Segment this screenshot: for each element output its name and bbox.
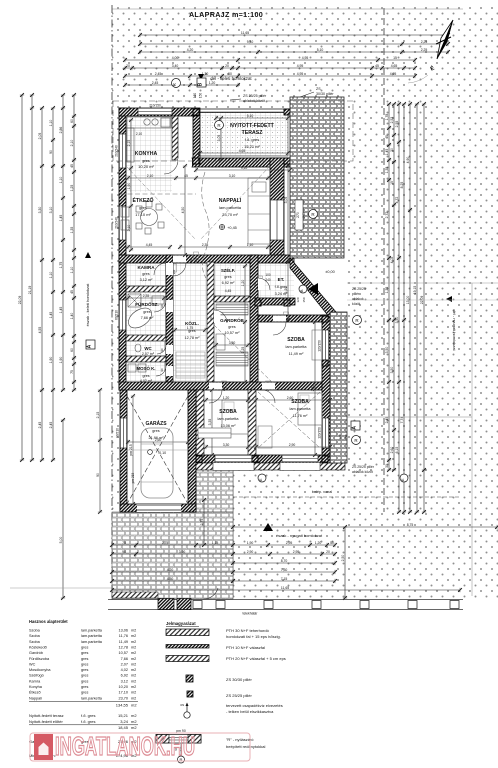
svg-text:90: 90 [49, 150, 53, 154]
ground stipple texture [112, 5, 498, 600]
section box A left [86, 340, 95, 349]
svg-text:2,50: 2,50 [341, 555, 345, 562]
svg-text:2,25: 2,25 [421, 48, 428, 52]
svg-text:4,00: 4,00 [172, 56, 179, 60]
terrace top edge lines [196, 108, 290, 110]
svg-text:WC: WC [144, 346, 152, 351]
svg-text:90: 90 [160, 368, 164, 372]
svg-text:ZS 25/25 pillér: ZS 25/25 pillér [226, 693, 252, 698]
nappali east sliding door window [270, 200, 284, 240]
svg-text:9,10: 9,10 [241, 166, 248, 170]
svg-text:m2: m2 [131, 702, 137, 707]
svg-text:1,40: 1,40 [70, 313, 74, 320]
svg-text:TERASZ: TERASZ [242, 130, 264, 136]
nappali wavy section line [202, 172, 209, 278]
svg-text:10,20 m²: 10,20 m² [138, 164, 154, 169]
eszak-keleti homlokzat label rotated [85, 252, 91, 258]
east masonry strip upper [290, 97, 344, 258]
svg-text:- telken belül elszikkasztva: - telken belül elszikkasztva [226, 709, 274, 714]
svg-text:cs: cs [180, 703, 184, 707]
svg-text:120: 120 [338, 434, 342, 439]
window szoba-right east [322, 418, 329, 448]
door arcs [154, 160, 286, 403]
svg-text:2,35: 2,35 [202, 243, 209, 247]
legend ZS30 square [186, 675, 193, 682]
window konyha left [119, 134, 126, 168]
svg-text:75: 75 [70, 370, 74, 374]
svg-text:f.ő. gres: f.ő. gres [81, 719, 95, 724]
svg-text:Kamra: Kamra [29, 679, 41, 683]
bottom dimension chains [110, 543, 337, 547]
svg-text:3,10: 3,10 [229, 174, 236, 178]
svg-text:2,25: 2,25 [421, 40, 428, 44]
kozl stairs/radiator stripes [176, 352, 205, 378]
svg-text:3,12: 3,12 [121, 679, 128, 683]
house footprint white background [119, 108, 347, 512]
svg-text:ablakok: ablakok [352, 297, 364, 301]
svg-text:4,95: 4,95 [302, 56, 309, 60]
svg-text:gres: gres [142, 272, 149, 276]
svg-text:7,30: 7,30 [281, 568, 288, 572]
svg-text:lam.parketta: lam.parketta [290, 407, 312, 411]
svg-text:75: 75 [122, 541, 126, 545]
svg-text:A: A [352, 426, 358, 430]
svg-text:4,20: 4,20 [187, 48, 194, 52]
et tile floor [258, 262, 294, 302]
svg-text:10,57 m²: 10,57 m² [225, 331, 241, 335]
door gaps in walls [173, 256, 186, 263]
svg-text:1,45: 1,45 [59, 307, 63, 314]
svg-text:210/240: 210/240 [115, 145, 119, 157]
svg-text:4,90: 4,90 [406, 157, 410, 164]
wall south of nappali (H1) [119, 255, 294, 263]
svg-text:SZOBA: SZOBA [287, 337, 305, 343]
svg-text:120/150: 120/150 [318, 427, 322, 439]
svg-text:11,76 m²: 11,76 m² [293, 414, 308, 418]
svg-text:21,19: 21,19 [28, 286, 32, 295]
svg-text:lam.parketta: lam.parketta [219, 205, 242, 210]
svg-text:150: 150 [344, 434, 348, 439]
svg-text:m2: m2 [131, 640, 136, 644]
kamra tile floor [126, 262, 166, 286]
svg-text:közöt: közöt [352, 302, 360, 306]
svg-text:90: 90 [189, 258, 193, 262]
szoba NE north wall [258, 315, 330, 322]
svg-text:3,50: 3,50 [385, 347, 389, 354]
svg-text:gres: gres [188, 329, 195, 333]
svg-text:22,09: 22,09 [18, 296, 22, 305]
middle horizontal wall south wing [119, 382, 330, 390]
svg-text:45: 45 [70, 290, 74, 294]
svg-text:45: 45 [375, 64, 379, 68]
svg-text:telekhatár: telekhatár [243, 612, 259, 616]
svg-text:Közlekedő: Közlekedő [29, 645, 47, 649]
svg-text:4,45: 4,45 [225, 289, 232, 293]
svg-text:3,30: 3,30 [38, 207, 42, 214]
svg-text:gres: gres [81, 674, 88, 678]
svg-text:m2: m2 [131, 679, 136, 683]
svg-text:Nyitott-fedett előtér: Nyitott-fedett előtér [29, 719, 63, 724]
top dimension chains [138, 33, 450, 37]
svg-text:12,78: 12,78 [118, 645, 128, 649]
svg-text:7,66 m²: 7,66 m² [141, 316, 155, 320]
svg-text:1,78: 1,78 [385, 114, 389, 121]
window konyha top [138, 108, 172, 115]
svg-text:2,95: 2,95 [286, 541, 293, 545]
furdoszoba tile floor [126, 292, 166, 335]
svg-text:270: 270 [296, 212, 300, 218]
svg-text:SZOBA: SZOBA [291, 399, 309, 405]
courtyard width 8.75 chain [231, 525, 498, 529]
legend bar PTH20 [166, 656, 209, 662]
neighbor dashed line x384 [383, 8, 385, 512]
svg-text:1,90: 1,90 [127, 183, 131, 190]
svg-text:2,45: 2,45 [49, 422, 53, 429]
svg-text:2,90: 2,90 [247, 550, 254, 554]
svg-text:ZS 25/25: ZS 25/25 [352, 287, 366, 291]
svg-text:1,35: 1,35 [70, 227, 74, 234]
fence gate hatched segments [158, 599, 174, 610]
svg-text:90: 90 [96, 473, 100, 477]
courtyard boundary lines [232, 412, 234, 596]
house roof dashed outline [113, 101, 353, 161]
konyha tile floor [126, 116, 172, 192]
svg-text:45: 45 [70, 164, 74, 168]
svg-text:4,02: 4,02 [121, 668, 128, 672]
svg-text:lam.parketta: lam.parketta [81, 634, 103, 638]
svg-text:1,15: 1,15 [212, 541, 219, 545]
svg-text:B: B [299, 289, 304, 292]
svg-text:észak - nyugati homlokzat: észak - nyugati homlokzat [276, 533, 323, 538]
svg-text:4,50: 4,50 [181, 207, 185, 214]
svg-text:m2: m2 [131, 674, 136, 678]
stone paving area below garage [112, 512, 233, 599]
svg-text:11,65: 11,65 [241, 31, 249, 35]
dining table etkezo (round) [121, 201, 164, 234]
del-nyugati homlokzat rotated [446, 296, 452, 302]
svg-text:7,66: 7,66 [121, 657, 128, 661]
garage door [137, 504, 181, 512]
svg-text:gres: gres [143, 374, 150, 378]
svg-text:2,75: 2,75 [200, 519, 204, 526]
svg-text:MOSÓ K.: MOSÓ K. [136, 366, 155, 371]
window szoba1 bottom [215, 455, 252, 462]
svg-text:150: 150 [302, 297, 306, 302]
svg-text:Nappali: Nappali [29, 696, 42, 700]
bottom exterior wall [196, 455, 330, 463]
svg-text:f.ő. gres: f.ő. gres [81, 713, 95, 718]
exterior wall left [119, 108, 126, 390]
svg-text:3,12 m²: 3,12 m² [140, 278, 154, 282]
svg-text:4,55: 4,55 [38, 327, 42, 334]
east masonry strip lower [330, 312, 347, 463]
svg-text:12,78 m²: 12,78 m² [185, 336, 201, 340]
svg-text:2,07 m²: 2,07 m² [142, 352, 155, 356]
svg-text:m2: m2 [131, 657, 136, 661]
courtyard section circles [258, 474, 266, 482]
svg-text:9,40: 9,40 [247, 40, 254, 44]
svg-text:5,10: 5,10 [317, 48, 324, 52]
vertical wall V3 gardrob-east [250, 255, 258, 382]
terrace south wall [192, 158, 292, 167]
svg-text:90: 90 [253, 282, 257, 286]
paving vertical chain 2.75 [202, 498, 206, 547]
svg-text:210/150: 210/150 [149, 104, 161, 108]
svg-text:1,35: 1,35 [385, 287, 389, 294]
svg-text:13,06: 13,06 [118, 629, 128, 633]
svg-text:Hasznos alapterület: Hasznos alapterület [29, 619, 68, 624]
svg-text:11,49 m²: 11,49 m² [289, 352, 304, 356]
svg-text:m2: m2 [131, 651, 136, 655]
svg-text:1,35: 1,35 [385, 167, 389, 174]
svg-text:60: 60 [70, 348, 74, 352]
window label 270/240 in strip [295, 200, 303, 230]
window szoba-ne east [322, 330, 329, 362]
window etkezo left [119, 206, 126, 240]
svg-text:m2: m2 [131, 685, 136, 689]
svg-text:m2: m2 [131, 719, 137, 724]
szoba west wall [196, 390, 204, 455]
svg-text:4,50: 4,50 [167, 577, 174, 581]
svg-text:m2: m2 [131, 713, 137, 718]
svg-text:PTH 10 N+F válaszfal: PTH 10 N+F válaszfal [226, 645, 265, 650]
svg-text:2,45: 2,45 [152, 81, 159, 85]
svg-text:A: A [87, 344, 93, 348]
svg-text:4,72: 4,72 [395, 197, 399, 204]
svg-text:ÉTKEZŐ: ÉTKEZŐ [132, 196, 153, 204]
svg-text:2,25: 2,25 [311, 385, 315, 392]
svg-text:4,65: 4,65 [239, 149, 246, 153]
svg-text:3,50: 3,50 [390, 367, 394, 374]
garage level mark [148, 450, 153, 455]
watermark red box [30, 733, 250, 761]
svg-text:210/240: 210/240 [115, 217, 119, 229]
svg-text:gres: gres [81, 668, 88, 672]
svg-text:17,10: 17,10 [118, 691, 128, 695]
svg-text:2,86: 2,86 [59, 127, 63, 134]
garage bottom wall [120, 504, 196, 512]
svg-text:f.ő.gres: f.ő.gres [275, 285, 288, 289]
svg-text:-0,10: -0,10 [158, 451, 166, 455]
kitchen-etkezo dashed boundary [120, 193, 196, 195]
nappali sofa/wall unit [248, 178, 270, 244]
svg-text:3,24: 3,24 [120, 719, 129, 724]
svg-text:gres: gres [139, 205, 147, 210]
ZS pillars black squares [193, 109, 199, 115]
svg-text:20: 20 [225, 64, 229, 68]
room label TERASZ [215, 121, 224, 130]
svg-text:6,92 m²: 6,92 m² [222, 281, 236, 285]
svg-text:m2: m2 [131, 629, 136, 633]
svg-text:észak - keleti homlokzat: észak - keleti homlokzat [85, 283, 90, 327]
svg-text:tervezett csapadékvíz elvezeté: tervezett csapadékvíz elvezetés [226, 703, 283, 708]
svg-text:dél - nyugati homlokzat: dél - nyugati homlokzat [452, 309, 457, 351]
svg-text:Jelmagyarázat: Jelmagyarázat [166, 621, 196, 626]
svg-text:3,90: 3,90 [179, 550, 186, 554]
et bottom wall [255, 298, 295, 305]
svg-text:f.ő. gres: f.ő. gres [245, 137, 259, 142]
szoba right dashed roof diagonals [258, 392, 320, 448]
svg-text:2,10: 2,10 [136, 132, 142, 136]
svg-text:1,20: 1,20 [223, 396, 230, 400]
svg-text:1,25: 1,25 [70, 185, 74, 192]
svg-text:2,95: 2,95 [293, 550, 300, 554]
svg-text:SZÉLF.: SZÉLF. [221, 268, 235, 273]
svg-text:KONYHA: KONYHA [135, 151, 158, 157]
svg-text:m2: m2 [131, 662, 136, 666]
svg-text:ZS 25/25 pillér: ZS 25/25 pillér [352, 465, 375, 469]
svg-text:FÜRDŐSZ.: FÜRDŐSZ. [135, 301, 158, 307]
svg-text:45: 45 [184, 174, 188, 178]
svg-text:NYITOTT-FEDETT: NYITOTT-FEDETT [230, 123, 275, 129]
svg-text:3,30: 3,30 [223, 443, 230, 447]
wc tile floor [126, 341, 166, 356]
del-keleti homlokzat label [198, 74, 204, 80]
svg-text:4,45: 4,45 [146, 243, 153, 247]
svg-text:3,24 m²: 3,24 m² [275, 292, 289, 296]
svg-text:lam.parketta: lam.parketta [81, 629, 103, 633]
svg-text:ZS 30/30 pillér: ZS 30/30 pillér [226, 677, 252, 682]
svg-text:1,20: 1,20 [241, 280, 245, 287]
svg-text:2,10: 2,10 [70, 140, 74, 147]
svg-text:m2: m2 [131, 696, 136, 700]
svg-text:gres: gres [228, 325, 235, 329]
svg-text:beépített redőnytokkal: beépített redőnytokkal [226, 744, 265, 749]
svg-text:2,10: 2,10 [147, 174, 154, 178]
svg-text:13,06 m²: 13,06 m² [221, 424, 237, 428]
shower square [128, 294, 141, 307]
svg-text:60: 60 [70, 119, 74, 123]
eszak-nyugati homlokzat label [263, 523, 273, 531]
svg-text:6,15: 6,15 [395, 447, 399, 454]
wc-moso divider [126, 356, 166, 362]
svg-text:1,90: 1,90 [49, 357, 53, 364]
svg-text:m2: m2 [131, 645, 136, 649]
svg-text:±0,00: ±0,00 [325, 270, 334, 274]
svg-text:KAMRA: KAMRA [137, 265, 155, 270]
svg-text:3,35: 3,35 [208, 419, 212, 426]
svg-text:B: B [198, 82, 204, 86]
svg-text:8,75: 8,75 [407, 523, 414, 527]
svg-text:23,70: 23,70 [118, 696, 128, 700]
svg-text:Étkező: Étkező [29, 690, 41, 695]
svg-text:homlokzati fal + 15 eps hőszig: homlokzati fal + 15 eps hőszig. [226, 634, 281, 639]
svg-text:30: 30 [385, 464, 389, 468]
svg-text:m2: m2 [131, 691, 136, 695]
svg-text:PTH 30 N+F teherhordó: PTH 30 N+F teherhordó [226, 628, 270, 633]
svg-text:Nyitott-fedett terasz: Nyitott-fedett terasz [29, 713, 64, 718]
svg-text:ZS 25/25 pillér: ZS 25/25 pillér [243, 94, 267, 98]
svg-text:30/30 pillér: 30/30 pillér [316, 92, 334, 96]
svg-text:4,02: 4,02 [390, 257, 394, 264]
svg-text:6,92: 6,92 [121, 674, 128, 678]
kitchen-terrace wall [193, 116, 200, 164]
svg-text:lam.parketta: lam.parketta [81, 696, 103, 700]
svg-text:1,10: 1,10 [247, 243, 254, 247]
svg-text:Fürdőszoba: Fürdőszoba [29, 657, 50, 661]
svg-text:1,10: 1,10 [59, 177, 63, 184]
svg-text:gres: gres [143, 310, 150, 314]
svg-text:3,50: 3,50 [395, 317, 399, 324]
svg-text:WC: WC [29, 662, 36, 666]
hatched apron below south wall [196, 463, 345, 470]
svg-text:60/210: 60/210 [115, 310, 119, 320]
svg-text:1,45: 1,45 [385, 149, 389, 156]
svg-text:2,35: 2,35 [143, 294, 150, 298]
svg-text:23,70 m²: 23,70 m² [222, 212, 238, 217]
paving bottom dark edge + gate arc [112, 592, 158, 598]
vertical wall V2 kozl-gardrob [207, 262, 214, 382]
svg-text:ablakok közöt: ablakok közöt [352, 470, 373, 474]
svg-text:NAPPALI: NAPPALI [219, 198, 242, 204]
svg-text:210: 210 [222, 386, 226, 391]
svg-text:150: 150 [199, 93, 203, 99]
svg-text:E: E [258, 478, 263, 481]
svg-text:4,02 m²: 4,02 m² [140, 379, 153, 383]
nappali dashed roof diagonals [126, 166, 196, 240]
svg-text:20: 20 [126, 64, 130, 68]
szoba right bed [298, 393, 322, 425]
wc fixture [135, 344, 141, 352]
svg-text:1,45: 1,45 [59, 215, 63, 222]
kozlekedo tile floor [173, 262, 207, 382]
svg-text:PTH 20 N+F válaszfal + 5 cm ep: PTH 20 N+F válaszfal + 5 cm eps [226, 656, 286, 661]
svg-text:90/210: 90/210 [116, 428, 120, 438]
svg-text:3,50: 3,50 [229, 341, 236, 345]
svg-text:11,49: 11,49 [119, 640, 128, 644]
garage car outline [141, 428, 173, 498]
window moso left [120, 418, 127, 448]
stone paving area right of garage [196, 440, 233, 512]
interior chains [126, 176, 270, 180]
svg-text:gres: gres [142, 158, 150, 163]
svg-text:2,15: 2,15 [96, 412, 100, 419]
svg-text:Szoba: Szoba [29, 634, 41, 638]
kamra-furdo divider [126, 286, 166, 292]
svg-text:2,45: 2,45 [155, 72, 162, 76]
svg-text:1,10: 1,10 [49, 120, 53, 127]
svg-text:100: 100 [265, 273, 271, 277]
svg-text:10,57: 10,57 [118, 651, 128, 655]
svg-text:19,15: 19,15 [413, 286, 417, 295]
svg-text:90: 90 [209, 316, 213, 320]
gardrob wardrobes [216, 304, 248, 366]
svg-text:134,55: 134,55 [116, 702, 129, 707]
svg-text:90: 90 [122, 550, 126, 554]
garage roof dashed X [127, 396, 188, 504]
window sills white gaps [213, 463, 254, 471]
svg-text:1,75: 1,75 [59, 262, 63, 269]
svg-text:dél - keleti homlokzat: dél - keleti homlokzat [210, 76, 252, 81]
svg-text:15: 15 [390, 181, 394, 185]
svg-text:gres: gres [81, 645, 88, 649]
svg-text:7,74: 7,74 [400, 417, 404, 424]
svg-text:Szélfogó: Szélfogó [29, 674, 44, 678]
svg-text:gres: gres [224, 275, 231, 279]
svg-text:gres: gres [81, 662, 88, 666]
svg-text:lam.parketta: lam.parketta [218, 417, 240, 421]
garage wall left [120, 390, 127, 512]
svg-text:3,40: 3,40 [172, 64, 179, 68]
svg-text:50: 50 [330, 541, 334, 545]
svg-text:KÖZL.: KÖZL. [185, 320, 199, 326]
svg-text:m2: m2 [131, 668, 136, 672]
svg-text:1,20: 1,20 [315, 541, 322, 545]
svg-text:8,25: 8,25 [400, 182, 404, 189]
svg-text:lam.parketta: lam.parketta [286, 345, 308, 349]
north property line [112, 8, 463, 10]
svg-text:120/150: 120/150 [318, 340, 322, 352]
